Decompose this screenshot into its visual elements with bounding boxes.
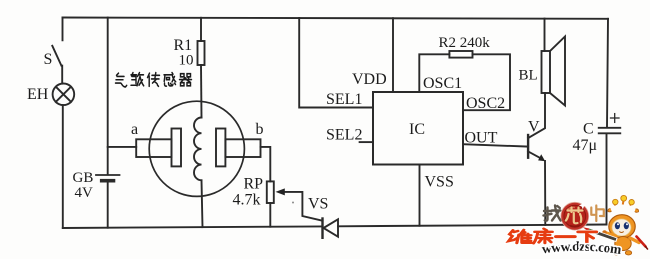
wire VSS pin to bottom rail (419, 165, 421, 226)
wire battery branch lower (107, 183, 109, 228)
label gas sensor (hand-drawn CJK) (116, 73, 192, 87)
svg-text:R2 240k: R2 240k (439, 35, 491, 51)
wire top rail (63, 18, 609, 19)
wire terminal a lead (108, 146, 137, 148)
svg-text:4.7k: 4.7k (233, 192, 261, 209)
lamp EH (53, 84, 75, 106)
svg-text:EH: EH (27, 86, 49, 103)
gas sensor envelope circle (149, 101, 244, 196)
svg-text:OUT: OUT (465, 130, 498, 147)
watermark: mascot body and limbs (602, 230, 647, 255)
wire speaker branch (544, 19, 546, 51)
speaker BL horn (550, 37, 565, 106)
wire R1 to coil (200, 65, 203, 118)
sensor left stem (136, 139, 171, 157)
resistor R1 (198, 41, 205, 65)
thyristor VS cathode bar (321, 219, 323, 238)
svg-text:RP: RP (244, 176, 264, 193)
transistor V base bar (527, 135, 529, 158)
svg-text:VDD: VDD (352, 71, 387, 88)
wire coil to bottom rail (202, 180, 203, 227)
scan speck near RP (292, 202, 294, 204)
wire R1 branch top (200, 18, 202, 41)
svg-text:a: a (131, 121, 138, 138)
watermark: red text wei-ku-yi-xia (hand-drawn) (509, 229, 597, 244)
watermark: character pian (piece) (591, 206, 604, 222)
speaker BL driver (542, 51, 551, 93)
resistor R2 (449, 51, 472, 58)
svg-text:10: 10 (179, 53, 194, 69)
thyristor VS triangle (324, 219, 339, 236)
svg-text:VS: VS (308, 196, 328, 213)
wire battery branch upper (107, 18, 109, 175)
svg-text:BL: BL (519, 68, 538, 84)
wire VDD pin (392, 18, 394, 92)
svg-text:SEL1: SEL1 (326, 91, 362, 108)
svg-text:R1: R1 (174, 37, 193, 54)
sensor left plate (172, 129, 182, 167)
sensor right stem (225, 139, 260, 157)
watermark: mascot crown (608, 195, 639, 212)
wire RP to bottom rail (269, 203, 271, 227)
sensor right plate (216, 129, 225, 167)
wire R2 to OSC2 pin (463, 54, 510, 110)
watermark: character zhao (find) (544, 206, 561, 221)
svg-text:GB: GB (73, 170, 94, 186)
wire OUT pin (463, 144, 528, 146)
capacitor C plates (599, 128, 621, 134)
sensor heater coil (194, 118, 201, 181)
svg-text:C: C (583, 121, 594, 138)
svg-text:www.dzsc.com: www.dzsc.com (541, 239, 623, 257)
svg-text:b: b (256, 121, 264, 138)
wire bottom rail right segment (338, 225, 607, 227)
svg-text:V: V (528, 119, 540, 136)
svg-text:SEL2: SEL2 (326, 127, 362, 144)
wire SEL1 pin (299, 18, 373, 108)
wire switch to lamp (61, 66, 63, 84)
capacitor C polarity plus (611, 114, 620, 123)
IC block U1 (373, 92, 463, 165)
transistor V emitter with arrow (528, 151, 545, 225)
svg-text:VSS: VSS (425, 174, 454, 191)
svg-text:OSC2: OSC2 (466, 95, 505, 112)
svg-text:S: S (44, 51, 53, 68)
wire capacitor branch upper (607, 19, 608, 127)
wire terminal b lead (261, 147, 271, 182)
wire SEL2 stub (360, 141, 373, 143)
wire left vertical (top to switch) (62, 18, 64, 41)
switch S blade (52, 46, 61, 66)
watermark: mascot head (609, 215, 635, 239)
wire OSC1 pin to R2 (419, 54, 449, 92)
sparkle on ring (579, 202, 587, 210)
wire capacitor branch lower (606, 134, 608, 225)
watermark: magnifier handle stick (583, 227, 617, 240)
svg-text:OSC1: OSC1 (423, 75, 462, 92)
svg-text:IC: IC (409, 121, 425, 138)
transistor V collector (528, 93, 545, 138)
svg-text:4V: 4V (75, 185, 94, 201)
watermark: magnifier ring with chip glyph (561, 202, 588, 230)
potentiometer RP body (267, 181, 274, 203)
battery GB plates (96, 175, 120, 181)
RP wiper arrow to VS gate (276, 188, 323, 220)
svg-text:47μ: 47μ (573, 137, 598, 154)
wire lamp to bottom rail (62, 105, 64, 228)
wire bottom rail left segment (63, 226, 323, 228)
